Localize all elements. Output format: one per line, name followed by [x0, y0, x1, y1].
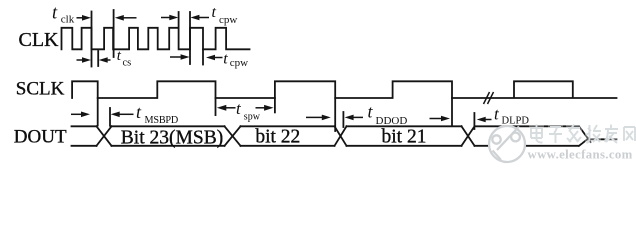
svg-text:t: t — [136, 102, 142, 122]
arrows group — [71, 15, 492, 123]
timing label t_DLPD — [494, 105, 529, 127]
DOUT hexagon Bit 23 — [112, 126, 225, 146]
watermark char 1 — [529, 124, 544, 143]
watermark char 6 — [622, 124, 636, 143]
t_MSBPD measurement line — [109, 108, 111, 126]
svg-text:www.elecfans.com: www.elecfans.com — [528, 147, 633, 161]
t_cpw top measurement line right — [189, 12, 191, 64]
timing label t_cs — [117, 48, 131, 68]
watermark char 2 — [548, 124, 563, 143]
DOUT hexagon bit 22 — [241, 126, 335, 146]
arrow t_clk right-pointing — [77, 17, 85, 19]
svg-text:clk: clk — [61, 13, 75, 25]
SCLK waveform — [72, 81, 616, 98]
svg-text:t: t — [368, 102, 374, 122]
arrow t_clk left-pointing — [123, 17, 137, 19]
arrow t_spw right-pointing — [256, 107, 265, 109]
arrow t_cpw top right-pointing — [161, 17, 171, 19]
DOUT converge X5 — [579, 126, 591, 146]
watermark char 5 — [604, 124, 620, 143]
DOUT transition X4 — [462, 126, 475, 146]
svg-text:t: t — [212, 4, 217, 21]
svg-text:t: t — [52, 4, 58, 24]
arrow t_cpw top left-pointing — [198, 17, 209, 19]
svg-text:t: t — [236, 99, 242, 118]
svg-text:t: t — [223, 51, 228, 68]
t_DDOD measurement line left — [342, 112, 344, 127]
t_clk measurement line left — [91, 12, 93, 67]
arrow before t_MSBPD right-pointing — [71, 113, 82, 115]
arrow t_cpw bottom right-pointing — [170, 56, 181, 58]
t_clk measurement line right — [113, 10, 115, 57]
arrow t_DDOD right-pointing — [430, 118, 442, 120]
SCLK falling edge extension t_MSBPD — [97, 98, 99, 126]
watermark hanzi characters — [529, 124, 636, 143]
DOUT tail line — [588, 138, 617, 140]
arrow before X3 right-pointing — [306, 116, 322, 118]
t_cpw bottom measurement line right — [202, 49, 204, 64]
svg-text:DOUT: DOUT — [14, 127, 67, 148]
svg-text:Bit 23(MSB): Bit 23(MSB) — [121, 128, 223, 149]
timing label t_clk — [52, 4, 75, 26]
svg-text:spw: spw — [244, 112, 261, 123]
timing label t_cpw top — [212, 4, 238, 26]
SCLK falling edge extension at bit22 end — [334, 98, 336, 131]
svg-text:t: t — [494, 105, 500, 124]
t_cs measurement line — [97, 51, 99, 66]
arrow t_MSBPD left-pointing — [119, 113, 134, 115]
SCLK rising edge extension t_spw right — [274, 98, 276, 112]
arrow t_cpw bottom left-pointing — [213, 57, 223, 59]
svg-text:SCLK: SCLK — [16, 78, 65, 99]
DOUT hexagon bit 20 unlabeled — [475, 126, 579, 146]
watermark logo circle — [489, 126, 525, 162]
watermark char 3 — [566, 124, 582, 143]
DOUT hexagon bit 21 — [347, 126, 462, 146]
arrow t_spw left-pointing — [225, 107, 236, 109]
timing label t_MSBPD — [136, 102, 178, 126]
SCLK break symbol — [484, 92, 494, 104]
arrow t_cs right-pointing — [77, 59, 85, 61]
timing label t_DDOD — [368, 102, 408, 128]
SCLK falling edge extension t_spw left — [215, 98, 217, 115]
DOUT transition X3 — [335, 126, 347, 146]
svg-text:bit 22: bit 22 — [255, 127, 300, 148]
arrow t_DDOD left-pointing — [353, 116, 363, 118]
DOUT transition X1 — [97, 126, 112, 146]
svg-text:cpw: cpw — [230, 57, 248, 69]
svg-text:CLK: CLK — [19, 29, 60, 51]
timing label t_cpw bottom — [223, 51, 248, 70]
t_DLPD measurement line — [473, 113, 475, 129]
svg-text:t: t — [117, 48, 122, 64]
svg-text:bit 21: bit 21 — [382, 127, 427, 148]
svg-text:DLPD: DLPD — [502, 116, 530, 127]
DOUT idle rails — [72, 126, 97, 146]
arrow t_DLPD left-pointing — [484, 119, 492, 121]
t_cpw top measurement line left — [178, 12, 180, 28]
DOUT transition X2 — [225, 126, 241, 146]
svg-text:cs: cs — [123, 58, 132, 69]
svg-text:MSBPD: MSBPD — [145, 115, 179, 126]
CLK waveform — [62, 28, 250, 50]
svg-text:DDOD: DDOD — [376, 115, 408, 127]
watermark char 4 — [585, 124, 601, 143]
svg-text:cpw: cpw — [219, 14, 237, 26]
arrow t_cs left-pointing — [106, 59, 111, 61]
timing label t_spw — [236, 99, 261, 123]
SCLK falling edge extension t_DDOD right — [451, 98, 453, 125]
